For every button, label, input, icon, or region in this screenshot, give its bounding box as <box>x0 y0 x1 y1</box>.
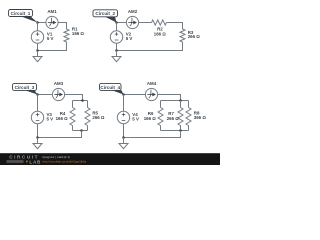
wire rail to ground run circuit 4 <box>124 131 181 138</box>
voltage source V4 5V <box>117 111 139 123</box>
svg-text:166 Ω: 166 Ω <box>144 116 157 121</box>
svg-text:5 V: 5 V <box>47 36 54 41</box>
wire V4 to ground junction <box>123 124 125 138</box>
svg-text:266 Ω: 266 Ω <box>92 115 105 120</box>
svg-text:166 Ω: 166 Ω <box>154 32 167 37</box>
wire node to ammeter AM1 <box>38 22 47 24</box>
voltage source V1 5V <box>31 31 53 43</box>
wire node to V2 <box>116 23 118 32</box>
ground circuit 4 <box>119 138 128 149</box>
svg-text:266 Ω: 266 Ω <box>167 116 180 121</box>
flag label Circuit_4 <box>100 83 124 94</box>
wire V2 to ground rail <box>116 43 118 50</box>
wire AM4 to parallel rail <box>158 95 181 101</box>
svg-text:LAB: LAB <box>29 159 41 164</box>
svg-text:AM3: AM3 <box>54 81 64 86</box>
node junction circuit 3 bottom rail <box>80 129 83 132</box>
svg-text:5 V: 5 V <box>47 117 54 122</box>
node junction circuit 3 corner <box>36 93 39 96</box>
svg-text:AM2: AM2 <box>128 9 138 14</box>
svg-text:http://circuitlab.com/c8r62gje: http://circuitlab.com/c8r62gje2jk5a <box>43 160 87 164</box>
node junction circuit 4 ground <box>122 136 125 139</box>
flag label Circuit_3 <box>13 83 38 94</box>
node junction circuit 1 top <box>36 21 39 24</box>
node junction circuit 1 bottom <box>36 49 39 52</box>
svg-text:166 Ω: 166 Ω <box>72 31 85 36</box>
wire AM1 to R1 <box>58 23 66 30</box>
ammeter AM1 <box>46 9 58 28</box>
bottom rail circuit 3 <box>73 130 88 132</box>
svg-text:kjmgmur | Lab1(2.1): kjmgmur | Lab1(2.1) <box>43 155 71 159</box>
wire V1 to ground rail <box>37 43 39 50</box>
resistor R1 166 ohm <box>64 27 84 43</box>
wire node to V4 <box>123 95 125 112</box>
svg-text:5 V: 5 V <box>132 117 139 122</box>
node junction circuit 3 ground <box>36 136 39 139</box>
ammeter AM3 <box>52 81 64 101</box>
resistor R5 266 ohm <box>85 101 105 131</box>
wire node to V3 <box>37 95 39 112</box>
wire node to ammeter AM3 <box>38 94 53 96</box>
node junction circuit 4 bottom rail <box>179 129 182 132</box>
node junction circuit 4 corner <box>122 93 125 96</box>
svg-text:Circuit_3: Circuit_3 <box>15 85 35 90</box>
wire AM2 to R2 <box>139 22 152 24</box>
wire node to V1 <box>37 23 39 32</box>
resistor R3 266 ohm <box>180 29 200 42</box>
ground circuit 3 <box>33 138 42 149</box>
bottom rail circuit 4 <box>161 130 189 132</box>
svg-text:Circuit_1: Circuit_1 <box>11 11 31 16</box>
voltage source V3 5V <box>31 111 53 123</box>
wire node to ammeter AM4 <box>124 94 146 96</box>
flag label Circuit_1 <box>9 10 38 23</box>
top rail circuit 4 <box>161 100 189 102</box>
resistor R7 266 ohm <box>167 101 183 131</box>
svg-text:Circuit_4: Circuit_4 <box>100 85 120 90</box>
top rail circuit 3 <box>73 100 88 102</box>
svg-text:266 Ω: 266 Ω <box>188 34 201 39</box>
wire V3 to ground junction <box>37 124 39 138</box>
ground circuit 1 <box>33 51 42 62</box>
svg-text:366 Ω: 366 Ω <box>194 115 207 120</box>
node junction circuit 4 rail <box>179 99 182 102</box>
node junction circuit 3 rail <box>81 99 84 102</box>
wire AM3 to parallel rail <box>65 95 83 101</box>
ground circuit 2 <box>112 51 121 62</box>
node junction circuit 2 top <box>115 21 118 24</box>
svg-text:AM4: AM4 <box>147 81 157 86</box>
resistor R6 166 ohm <box>144 101 163 131</box>
svg-text:166 Ω: 166 Ω <box>56 116 69 121</box>
wire R2 to R3 <box>167 23 183 30</box>
node junction circuit 2 bottom <box>115 49 118 52</box>
ammeter AM2 <box>126 9 138 28</box>
wire R1 to bottom rail circuit 1 <box>38 42 67 51</box>
wire node to ammeter AM2 <box>117 22 127 24</box>
resistor R4 166 ohm <box>56 101 75 131</box>
resistor R2 166 ohm <box>152 20 167 37</box>
svg-text:5 V: 5 V <box>126 36 133 41</box>
resistor R8 366 ohm <box>186 101 206 131</box>
wire rail to ground run circuit 3 <box>38 131 82 138</box>
svg-text:AM1: AM1 <box>47 9 57 14</box>
flag label Circuit_2 <box>93 10 118 23</box>
ammeter AM4 <box>145 81 157 101</box>
wire R3 to bottom rail circuit 2 <box>117 42 183 51</box>
svg-text:Circuit_2: Circuit_2 <box>95 11 115 16</box>
voltage source V2 5V <box>110 31 132 43</box>
footer watermark bar <box>0 153 220 165</box>
